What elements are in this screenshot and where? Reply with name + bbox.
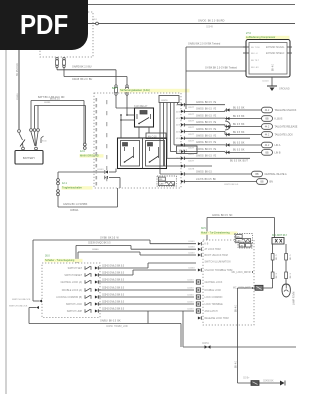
- svg-text:C0577: C0577: [188, 114, 195, 116]
- svg-text:C0104: C0104: [262, 80, 269, 82]
- svg-text:SWITCH LIMP: SWITCH LIMP: [67, 311, 83, 313]
- svg-text:L/GY/S BK 0.5 BK: L/GY/S BK 0.5 BK: [196, 179, 216, 181]
- svg-text:27.0: 27.0: [246, 32, 251, 35]
- svg-text:C0542 GN/LG BK 0.5: C0542 GN/LG BK 0.5: [102, 308, 125, 310]
- svg-text:LAMP FSVM: LAMP FSVM: [293, 292, 296, 305]
- svg-text:GN/OG BK 0.5: GN/OG BK 0.5: [196, 171, 213, 173]
- svg-text:30.5: 30.5: [201, 227, 206, 230]
- svg-text:C0563: C0563: [187, 279, 194, 281]
- svg-text:C0563: C0563: [187, 294, 194, 296]
- svg-text:BK 4.0: BK 4.0: [236, 304, 238, 312]
- svg-text:C0577: C0577: [188, 154, 195, 156]
- svg-text:C0577: C0577: [188, 127, 195, 129]
- svg-text:EXTEND SIGNAL: EXTEND SIGNAL: [266, 46, 285, 49]
- svg-text:C0577: C0577: [188, 121, 195, 123]
- svg-text:C0577: C0577: [188, 161, 195, 163]
- svg-text:CENTRAL LOCK (A): CENTRAL LOCK (A): [60, 281, 82, 284]
- svg-text:BU 0.5 BK: BU 0.5 BK: [233, 132, 245, 134]
- svg-text:LIN: LIN: [240, 245, 244, 247]
- svg-text:RELEASE LOCK TRIM: RELEASE LOCK TRIM: [205, 317, 229, 320]
- svg-text:BN: BN: [270, 181, 274, 184]
- svg-text:CENTRAL INLATE A: CENTRAL INLATE A: [265, 173, 287, 176]
- svg-text:GN/OG BK 0.5 YE: GN/OG BK 0.5 YE: [196, 149, 217, 151]
- svg-text:42 B: 42 B: [176, 145, 181, 147]
- svg-text:GN/OG BK 0.5 YE: GN/OG BK 0.5 YE: [196, 142, 217, 144]
- svg-text:BU 0.5 BK: BU 0.5 BK: [233, 150, 245, 152]
- svg-text:42 B: 42 B: [176, 138, 181, 140]
- svg-text:C0542 GN/LG BK 0.5: C0542 GN/LG BK 0.5: [102, 287, 125, 289]
- svg-text:SWITCH SET: SWITCH SET: [68, 268, 83, 270]
- svg-text:C0577: C0577: [188, 141, 195, 143]
- svg-text:BK .5: BK .5: [276, 254, 278, 260]
- svg-text:C0563: C0563: [188, 247, 195, 249]
- svg-text:C0542 GN/LG BK 0.5: C0542 GN/LG BK 0.5: [102, 279, 125, 281]
- svg-text:42 B: 42 B: [176, 125, 181, 127]
- svg-text:LOCK TROMBLE: LOCK TROMBLE: [205, 304, 224, 306]
- svg-text:BU 0.5 BK: BU 0.5 BK: [233, 107, 245, 109]
- svg-text:42 B: 42 B: [176, 158, 181, 160]
- svg-text:GN/RD BK 2.0 BU: GN/RD BK 2.0 BU: [72, 65, 92, 68]
- svg-text:C0577: C0577: [188, 147, 195, 149]
- svg-text:C0150: C0150: [17, 93, 19, 100]
- svg-text:C0450 BK: C0450 BK: [263, 380, 274, 382]
- svg-text:GN/OG BK 0.5 YE: GN/OG BK 0.5 YE: [196, 129, 217, 131]
- svg-text:GN/OG BK 0.5 SN: GN/OG BK 0.5 SN: [212, 215, 233, 217]
- svg-text:C0563: C0563: [187, 301, 194, 303]
- svg-text:BU LEV: BU LEV: [251, 67, 259, 69]
- svg-text:DOUBLE LOCK (A): DOUBLE LOCK (A): [62, 289, 83, 292]
- svg-text:BK .5: BK .5: [276, 272, 278, 278]
- svg-text:BK .5: BK .5: [290, 272, 292, 278]
- svg-text:BATTERY: BATTERY: [23, 156, 35, 160]
- svg-text:42 B: 42 B: [176, 105, 181, 107]
- svg-text:C0563: C0563: [188, 267, 195, 269]
- svg-text:C0542 GN/LG BK 0.5: C0542 GN/LG BK 0.5: [102, 265, 125, 267]
- svg-text:GN/OG BK 0.5 YE: GN/OG BK 0.5 YE: [196, 122, 217, 124]
- svg-text:TAILGATE LOCK: TAILGATE LOCK: [275, 134, 294, 137]
- svg-text:Tragheitsschalter: Tragheitsschalter: [62, 185, 82, 189]
- svg-text:UNLOCK TROMBLE TRIM: UNLOCK TROMBLE TRIM: [205, 270, 233, 272]
- svg-text:GN/OG BK 0.5 YE: GN/OG BK 0.5 YE: [196, 156, 217, 158]
- svg-text:LIN A: LIN A: [275, 144, 281, 147]
- svg-text:C0563: C0563: [187, 308, 194, 310]
- svg-text:Sicherungskasten (14A): Sicherungskasten (14A): [120, 88, 150, 92]
- svg-text:C0108 BK 2.0 BU: C0108 BK 2.0 BU: [72, 78, 92, 81]
- svg-text:C0151: C0151: [44, 102, 51, 104]
- svg-text:C0451: C0451: [202, 343, 209, 345]
- svg-text:BU 0.5 BK: BU 0.5 BK: [233, 124, 245, 126]
- svg-text:LOCKING COMMON (B): LOCKING COMMON (B): [56, 297, 82, 299]
- svg-text:C0563: C0563: [188, 241, 195, 243]
- svg-text:BU 0.5 BK BU/T: BU 0.5 BK BU/T: [230, 161, 248, 163]
- svg-text:GY/BK BK 0.5 W: GY/BK BK 0.5 W: [100, 237, 119, 239]
- svg-text:SWITCH RESET: SWITCH RESET: [64, 275, 82, 277]
- svg-text:GROUND: GROUND: [279, 87, 290, 90]
- svg-text:C0576: C0576: [161, 100, 168, 102]
- svg-text:SWITCH ILLUMINATION: SWITCH ILLUMINATION: [205, 261, 231, 264]
- svg-text:GN/BU BK 0.5 BK: GN/BU BK 0.5 BK: [100, 320, 121, 323]
- svg-text:30.0: 30.0: [45, 255, 50, 258]
- svg-text:CENTRAL LOCK: CENTRAL LOCK: [205, 281, 223, 284]
- svg-text:K B: K B: [205, 244, 209, 246]
- svg-text:44.2: 44.2: [265, 135, 270, 137]
- svg-text:C0540: C0540: [92, 249, 99, 251]
- svg-text:C0583: C0583: [97, 169, 104, 171]
- svg-text:AND LATCH: AND LATCH: [205, 310, 218, 313]
- svg-text:LOCK COMMON: LOCK COMMON: [205, 297, 223, 299]
- svg-text:BB: BB: [255, 174, 259, 176]
- svg-text:BB: BB: [265, 153, 269, 155]
- svg-text:30.1 MOT RLY: 30.1 MOT RLY: [272, 235, 288, 237]
- svg-text:44.2: 44.2: [265, 127, 270, 129]
- svg-text:Motor - Tur-Zentralverrieg.: Motor - Tur-Zentralverrieg.: [201, 232, 230, 235]
- svg-text:BB: BB: [260, 182, 264, 184]
- svg-text:C0563: C0563: [188, 252, 195, 254]
- svg-text:C0 B+: C0 B+: [243, 378, 250, 380]
- svg-text:SWITCH UNLOCK: SWITCH UNLOCK: [9, 306, 28, 308]
- svg-text:GN/OG BK 0.5 YE: GN/OG BK 0.5 YE: [196, 115, 217, 117]
- svg-text:GN/OG BK 0.5 YE: GN/OG BK 0.5 YE: [196, 109, 217, 111]
- svg-text:44.2: 44.2: [265, 145, 270, 147]
- svg-text:BK .5: BK .5: [290, 254, 292, 260]
- svg-text:BATT: BATT: [112, 87, 118, 90]
- svg-text:C0450 TRIMM_LINK: C0450 TRIMM_LINK: [106, 326, 128, 328]
- svg-text:44.2: 44.2: [265, 110, 270, 112]
- svg-text:BU 0.5 BK: BU 0.5 BK: [233, 142, 245, 144]
- svg-text:BK 4.0: BK 4.0: [273, 63, 275, 71]
- svg-text:CAN: CAN: [159, 183, 164, 186]
- svg-text:E100: E100: [42, 141, 48, 143]
- svg-text:12.1: 12.1: [62, 182, 67, 185]
- svg-text:BU LU: BU LU: [251, 53, 258, 55]
- svg-text:BK 4.0: BK 4.0: [236, 360, 238, 368]
- svg-text:BU TILT: BU TILT: [251, 60, 260, 62]
- svg-text:12.0: 12.0: [80, 150, 85, 153]
- svg-text:CAN: CAN: [236, 239, 241, 242]
- svg-text:C0584A: C0584A: [70, 209, 79, 212]
- svg-text:SWITCH UNLOCK: SWITCH UNLOCK: [12, 299, 31, 301]
- svg-text:SWITCH LOCK: SWITCH LOCK: [66, 304, 83, 306]
- svg-text:GN/OG BK 2.0 BU/RD: GN/OG BK 2.0 BU/RD: [198, 19, 225, 22]
- svg-text:MC_LOCK_DRVR: MC_LOCK_DRVR: [232, 272, 251, 274]
- svg-text:C0578: C0578: [188, 169, 195, 171]
- svg-text:BOOT UNLOCK TRIM: BOOT UNLOCK TRIM: [205, 255, 228, 257]
- svg-text:Luftfederung Kompressor: Luftfederung Kompressor: [246, 35, 275, 39]
- svg-text:C0539 GN/QC BK 0.5: C0539 GN/QC BK 0.5: [88, 243, 111, 245]
- svg-text:C0577: C0577: [188, 134, 195, 136]
- svg-text:DOUBLE LOCK: DOUBLE LOCK: [205, 290, 222, 292]
- svg-text:C0542 GN/LG BK 0.5: C0542 GN/LG BK 0.5: [102, 294, 125, 296]
- svg-text:BK 25.0 RD: BK 25.0 RD: [16, 63, 19, 76]
- svg-text:C0563: C0563: [187, 287, 194, 289]
- svg-text:C0577: C0577: [188, 107, 195, 109]
- svg-text:C0049: C0049: [206, 27, 213, 29]
- svg-text:BU 0.5 BK: BU 0.5 BK: [233, 116, 245, 118]
- svg-text:C0579 BK 0.5: C0579 BK 0.5: [224, 184, 239, 186]
- svg-text:42 B: 42 B: [176, 111, 181, 113]
- svg-text:AT LOCK TRIM: AT LOCK TRIM: [205, 248, 221, 251]
- svg-text:TAILGATE RELEASE: TAILGATE RELEASE: [275, 126, 298, 129]
- svg-text:EXTEND SHIELD: EXTEND SHIELD: [266, 53, 285, 55]
- svg-text:C0542 GN/LG BK 0.5: C0542 GN/LG BK 0.5: [102, 272, 125, 274]
- svg-text:42 B: 42 B: [176, 118, 181, 120]
- svg-text:BATT BK 2 BK 19.0 RD: BATT BK 2 BK 19.0 RD: [38, 96, 65, 99]
- svg-text:GN/BU BK 2.0 GY/BK Twisted: GN/BU BK 2.0 GY/BK Twisted: [188, 42, 221, 45]
- svg-text:K123 RELAY: K123 RELAY: [134, 105, 148, 108]
- svg-text:42 B: 42 B: [176, 152, 181, 154]
- svg-text:42 B: 42 B: [176, 131, 181, 133]
- svg-text:GN/OG BK 1.0 WH/BK: GN/OG BK 1.0 WH/BK: [63, 203, 88, 206]
- svg-text:GY/BK BK 2.0 GY/BK Twisted: GY/BK BK 2.0 GY/BK Twisted: [205, 66, 238, 69]
- svg-text:LIN B: LIN B: [275, 152, 281, 155]
- svg-text:TAILGATE UNLOCK: TAILGATE UNLOCK: [275, 109, 297, 112]
- svg-text:GN/OG BK 0.5 YE: GN/OG BK 0.5 YE: [196, 102, 217, 104]
- svg-text:C0542 GN/LG BK 0.5: C0542 GN/LG BK 0.5: [102, 301, 125, 303]
- svg-text:Schalter - Turverriegelung: Schalter - Turverriegelung: [45, 258, 75, 262]
- svg-text:BB: BB: [265, 119, 269, 121]
- svg-text:K_BUS: K_BUS: [275, 118, 283, 121]
- svg-text:BU TOW: BU TOW: [251, 47, 261, 49]
- svg-text:GN/OG BK 0.5 YE: GN/OG BK 0.5 YE: [196, 136, 217, 138]
